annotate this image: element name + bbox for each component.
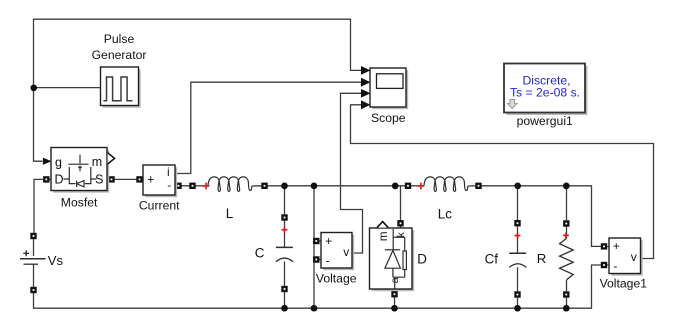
svg-text:R: R <box>537 251 547 266</box>
svg-text:g: g <box>55 155 62 169</box>
port pad: Lc output <box>475 183 481 189</box>
svg-text:Voltage: Voltage <box>316 272 357 286</box>
port pad: Voltage1 minus <box>601 262 607 268</box>
polarity mark Lc plus <box>418 183 425 190</box>
port pad: Voltage minus <box>313 256 319 262</box>
block: Diode D <box>370 228 415 291</box>
Vs plus sign <box>23 250 29 256</box>
junction: node Cf branch top <box>514 183 521 190</box>
port pad: Voltage plus <box>313 238 319 244</box>
wire: R branch to bottom rail <box>566 298 568 309</box>
wire: L output lead to node C <box>252 185 285 187</box>
junction: bottom rail Voltage <box>311 305 318 312</box>
svg-text:C: C <box>255 245 265 260</box>
wire: L input lead <box>196 185 209 187</box>
port pad: Mosfet D <box>43 176 49 182</box>
wire: D branch from rail down to Diode <box>400 186 402 220</box>
wire: Diode top stub <box>400 226 402 228</box>
wire: Diode bottom to bottom rail <box>394 289 396 308</box>
svg-text:D: D <box>54 172 63 186</box>
wire: C branch capacitor bottom lead <box>284 262 286 286</box>
svg-text:Generator: Generator <box>92 48 147 62</box>
wire: Voltage minus stub <box>319 259 322 261</box>
svg-text:Mosfet: Mosfet <box>61 195 98 209</box>
wire: Current minus to inductor L branch <box>176 185 193 187</box>
Diode icon interior <box>385 229 407 289</box>
block: Scope <box>370 68 408 109</box>
svg-text:Cf: Cf <box>485 252 499 267</box>
svg-text:+: + <box>147 173 154 187</box>
arrowhead into Scope input 2 <box>361 78 371 87</box>
junction: bottom rail Diode <box>391 305 398 312</box>
Mosfet icon interior <box>64 155 97 188</box>
Mosfet m output chevron <box>108 153 115 164</box>
block: Voltage measurement <box>321 233 354 271</box>
port pad: Lc input <box>405 183 411 189</box>
port pad: R top <box>563 220 569 226</box>
wire: Vs plate to bottom pad <box>33 264 35 287</box>
inductor Lc coil <box>424 177 468 191</box>
svg-text:+: + <box>325 234 332 248</box>
wire: Lc input lead <box>411 185 424 187</box>
port pad: C top <box>281 214 287 220</box>
wire: Voltage branch vertical <box>313 186 315 308</box>
Pulse Generator waveform icon <box>103 77 132 101</box>
arrowhead into Scope input 3 <box>361 89 371 98</box>
port pad: Cf top <box>514 220 520 226</box>
port pad: Diode top <box>397 220 403 226</box>
capacitor C symbol <box>276 247 293 261</box>
wire: bottom rail <box>34 265 602 308</box>
block: Current measurement <box>143 165 177 197</box>
resistor R zigzag symbol <box>560 238 574 280</box>
polarity mark Cf plus <box>515 233 521 239</box>
inductor L coil <box>208 177 252 191</box>
svg-text:Vs: Vs <box>48 253 64 268</box>
wire: C branch down from rail <box>284 186 286 214</box>
wire: Lc output to rail right end down to Voltage1 plus <box>468 186 602 247</box>
svg-text:Scope: Scope <box>371 111 406 125</box>
wire: Mosfet D stub <box>49 178 52 180</box>
wire: main rail node C to node D <box>285 185 409 187</box>
port pad: Voltage1 plus <box>601 243 607 249</box>
wire: Cf branch down from rail <box>517 186 519 220</box>
svg-text:L: L <box>226 206 233 221</box>
DC voltage source Vs symbol <box>20 259 46 264</box>
svg-text:powergui1: powergui1 <box>517 114 573 128</box>
polarity mark L plus <box>203 183 210 190</box>
svg-text:Current: Current <box>139 198 180 212</box>
junction: node R branch top <box>563 183 570 190</box>
wire: Voltage1 plus stub <box>607 246 609 248</box>
svg-text:v: v <box>631 250 637 264</box>
wire: R top lead <box>566 227 568 239</box>
port pad: Diode bottom <box>391 291 397 297</box>
svg-text:a: a <box>389 277 401 283</box>
wire: Vs plus up to Mosfet D <box>34 179 43 233</box>
block: Pulse Generator <box>101 67 141 108</box>
wire: Pulse Generator output to gate node <box>34 87 101 89</box>
block: Mosfet <box>51 148 109 193</box>
block: Voltage1 measurement <box>609 238 643 276</box>
Diode m output chevron <box>377 222 388 228</box>
arrowhead into Mosfet g <box>43 158 52 165</box>
port pad: Vs minus <box>30 287 36 293</box>
svg-text:D: D <box>417 252 427 267</box>
wire: R bottom lead <box>566 280 568 291</box>
wire: Cf capacitor top lead <box>517 227 519 254</box>
svg-text:m: m <box>92 155 102 169</box>
Scope screen <box>377 74 404 89</box>
wire: Cf capacitor bottom lead <box>517 267 519 291</box>
junction: bottom rail R <box>563 305 570 312</box>
port pad: Vs plus <box>30 233 36 239</box>
wire: Voltage v output to Scope input 3 <box>341 93 363 253</box>
junction: gate signal node <box>30 85 37 92</box>
svg-text:m: m <box>378 232 390 242</box>
wire: R branch down from rail <box>566 186 568 221</box>
port pad: C bottom <box>281 286 287 292</box>
wire: Current i output up to Scope input 2 <box>175 82 361 173</box>
wire: Voltage1 minus stub <box>607 264 609 266</box>
svg-text:v: v <box>343 245 349 259</box>
svg-text:Ts = 2e-08 s.: Ts = 2e-08 s. <box>510 86 580 100</box>
junction: node Voltage branch top <box>311 183 318 190</box>
junction: node Diode branch top <box>392 183 399 190</box>
wire: Mosfet S to Current plus <box>108 178 144 180</box>
port pad: L output <box>261 183 267 189</box>
wire: Voltage1 v output to Scope input 4 <box>351 105 654 259</box>
wire: gate node down to Mosfet g input <box>34 88 43 162</box>
svg-text:Voltage1: Voltage1 <box>600 277 648 291</box>
block: powergui1 <box>504 64 588 116</box>
svg-text:-: - <box>613 259 617 273</box>
wire: C branch capacitor top lead <box>284 221 286 248</box>
polarity mark R plus <box>563 232 569 238</box>
port pad: Current minus <box>175 183 181 189</box>
wire: Voltage plus stub <box>319 240 322 242</box>
polarity mark C plus <box>282 227 288 233</box>
capacitor Cf symbol <box>509 253 526 267</box>
wire: Cf branch to bottom rail <box>517 298 519 309</box>
svg-text:Lc: Lc <box>438 207 452 222</box>
powergui down-arrow icon <box>508 100 518 109</box>
wire: C branch to bottom rail <box>284 292 286 308</box>
wire: Vs bottom stub <box>33 239 35 256</box>
svg-text:-: - <box>326 253 330 267</box>
junction: bottom rail Cf <box>514 305 521 312</box>
junction: bottom rail C <box>281 305 288 312</box>
arrowhead into Scope input 4 <box>361 100 371 109</box>
port pad: Current plus <box>136 176 142 182</box>
svg-text:S: S <box>95 172 103 186</box>
wire: gate node up and across top to Scope input 1 <box>34 19 362 87</box>
svg-text:Pulse: Pulse <box>104 32 135 46</box>
port pad: Cf bottom <box>514 291 520 297</box>
junction: node after L (C branch) <box>281 183 288 190</box>
port pad: L input <box>189 183 195 189</box>
svg-text:+: + <box>613 239 620 253</box>
svg-text:k: k <box>395 231 407 237</box>
port pad: R bottom <box>563 291 569 297</box>
arrowhead into Scope input 1 <box>361 66 371 75</box>
port pad: Mosfet S <box>108 176 114 182</box>
svg-text:-: - <box>167 178 171 192</box>
